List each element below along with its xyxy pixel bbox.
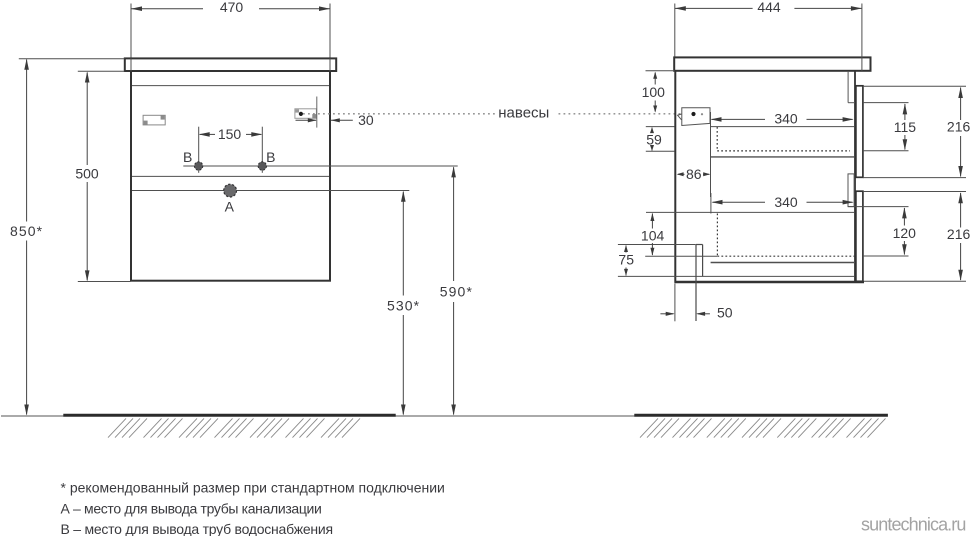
side view: cabinet front edge line (854, 71, 856, 281)
front view: countertop (125, 58, 336, 71)
svg-text:104: 104 (641, 228, 665, 244)
front view: A leader line (132, 190, 409, 192)
floor thin line (1, 415, 635, 417)
floor hatching right (640, 418, 658, 437)
svg-text:115: 115 (894, 119, 917, 135)
side view: dim 50 arrows (660, 313, 673, 315)
front view: dim 500 extension lines (78, 70, 125, 72)
side view: drawer1 bottom panel (711, 156, 855, 158)
side view: dim 216 bottom line and arrows (960, 193, 962, 228)
front view: A hole (224, 184, 237, 197)
side view: dim 86 arrows (678, 173, 685, 175)
svg-text:A: A (225, 199, 235, 215)
svg-text:216: 216 (947, 119, 970, 135)
side view: drawer2 dotted interior (716, 214, 718, 257)
side view: dim 120 line and arrows (903, 208, 905, 226)
side view: dim 120 extension lines (848, 206, 909, 208)
svg-text:500: 500 (75, 165, 99, 181)
side view: cabinet back panel (674, 71, 676, 283)
side view: drawer2 bottom panel (711, 262, 855, 264)
front view: left hanger bracket (143, 115, 165, 125)
svg-text:suntechnica.ru: suntechnica.ru (861, 515, 965, 535)
front view: cabinet body (131, 71, 330, 281)
front view: top rail line (132, 85, 329, 87)
side view: dim 115 line and arrows (904, 104, 906, 120)
dim 590* line and arrows (453, 167, 455, 281)
svg-text:59: 59 (646, 131, 662, 147)
side view: dim 75 top extension (618, 244, 696, 246)
front view: dim 30 arrows (296, 119, 317, 121)
front view: middle line (132, 175, 329, 177)
side view: dim 115 extension lines (863, 102, 909, 104)
dim 530* line and arrows (402, 192, 404, 296)
side view: dim 104 bottom extension (645, 255, 717, 257)
side view: dim 100 line and arrows (654, 73, 656, 85)
svg-text:120: 120 (893, 225, 917, 241)
side view: dim 444 line and arrows (675, 7, 753, 9)
side view: drawer1 top line (711, 126, 855, 128)
side view: dim 340 bottom line and arrows (713, 201, 766, 203)
svg-text:* рекомендованный размер при с: * рекомендованный размер при стандартном… (61, 479, 445, 495)
side view: dim 50 extension lines (674, 284, 676, 322)
svg-text:100: 100 (642, 84, 666, 100)
side view: dim 100 extension (646, 70, 675, 72)
front view: right hanger bracket (295, 109, 317, 119)
side view: top handle recess (847, 71, 849, 103)
side view: dim 216 bottom extension lines (863, 191, 966, 193)
front view: B hole left (194, 162, 202, 170)
svg-text:850*: 850* (10, 223, 43, 239)
front view: dim 150 line and arrows (200, 133, 215, 135)
side view: dim 216 top extension lines (863, 85, 966, 87)
svg-text:B: B (266, 149, 275, 165)
side view: dim 59 line and arrows (651, 128, 653, 133)
side view: dim 216 top line and arrows (960, 88, 962, 121)
side view: dim 444 right extension through countertop (861, 4, 863, 71)
front view: dim 470 extension lines through countertop (130, 58, 132, 71)
side view: dim 340 top line and arrows (712, 118, 766, 120)
side view: dim 104 line and arrows (651, 214, 653, 229)
side view: dim 75 line and arrows (625, 246, 627, 253)
svg-text:444: 444 (757, 0, 781, 15)
front view: dim 850 top extension line (19, 58, 125, 60)
svg-text:340: 340 (774, 194, 798, 210)
svg-text:B: B (183, 149, 192, 165)
svg-text:86: 86 (686, 166, 702, 182)
floor hatching left (108, 418, 126, 437)
front view: dim 500 line and arrows (86, 73, 88, 166)
side view: 340/86 left extension line (710, 112, 712, 197)
svg-text:340: 340 (774, 111, 798, 127)
svg-text:590*: 590* (440, 284, 473, 300)
side view: dim 340 bottom extension (710, 193, 712, 214)
side view: dim 59 top extension (646, 126, 675, 128)
svg-text:150: 150 (218, 126, 242, 142)
svg-text:А – место для вывода трубы кан: А – место для вывода трубы канализации (61, 501, 322, 517)
side view: back support strut (695, 245, 697, 322)
svg-text:75: 75 (618, 252, 634, 268)
side view: cabinet bottom (675, 281, 865, 284)
floor thick line right (634, 414, 888, 417)
side view: wall hanger block (682, 108, 710, 126)
svg-text:530*: 530* (387, 297, 420, 313)
svg-text:470: 470 (220, 0, 244, 15)
front view: dim 150 extension lines (198, 127, 200, 173)
dotted leader to наvесы left segment (303, 113, 497, 115)
floor thick line left (63, 414, 395, 417)
dotted leader to навесы right segment (559, 113, 690, 115)
front view: B hole right (258, 162, 266, 170)
side view: drawer2 top line with left extension (646, 211, 854, 213)
side view: dim 59 extension (646, 150, 675, 152)
svg-text:навесы: навесы (498, 104, 549, 121)
svg-text:30: 30 (358, 112, 374, 128)
side view: top drawer front (856, 86, 863, 178)
front view: dim 850 line and arrows (26, 60, 28, 222)
side view: countertop (674, 57, 870, 70)
side view: dim 444 extension lines (674, 4, 676, 58)
side view: lower handle recess (848, 174, 854, 207)
svg-text:216: 216 (947, 226, 970, 242)
svg-text:В – место для вывода труб водо: В – место для вывода труб водоснабжения (61, 521, 333, 536)
front view: dim 470 line and arrows (131, 8, 203, 10)
front view: hanger vertical extension line (316, 97, 318, 128)
side view: bottom drawer front (856, 191, 863, 281)
side view: inner bottom line (618, 275, 854, 277)
front view: dim 470 extension lines (130, 4, 132, 59)
front view: B leader line (183, 165, 457, 167)
svg-text:50: 50 (717, 305, 733, 321)
side view: drawer1 dotted interior (716, 127, 718, 151)
